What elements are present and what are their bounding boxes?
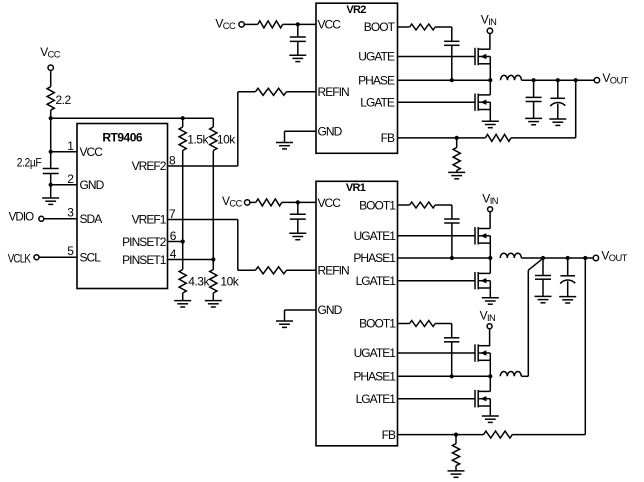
pin label BOOT1 (upper) <box>359 198 396 212</box>
resistor 2.2 <box>47 87 54 111</box>
wire phase2 diagonal to out junction <box>528 258 543 270</box>
net label VCLK <box>8 252 31 266</box>
ground (VR1 out cap2) <box>559 297 576 303</box>
wire UGATE to Q1 gate <box>398 56 476 58</box>
wire Q1 source to phase <box>489 57 491 81</box>
wire boot1 cap drop (lower) <box>451 324 453 338</box>
pin label UGATE <box>358 50 395 64</box>
terminal VIN (VR1 upper) <box>488 207 493 212</box>
wire FB riser (VR2) <box>575 80 577 138</box>
wire pin4 node to R 10k (lower) <box>212 260 214 270</box>
wire phase1b to Q6 drain <box>489 376 491 391</box>
net label VOUT (VR1) <box>601 249 627 264</box>
pin label GND (VR1) <box>318 303 343 317</box>
svg-text:SDA: SDA <box>80 212 103 226</box>
resistor FB bottom (VR2) <box>453 148 460 171</box>
wire R boot1 to corner (lower) <box>435 323 452 325</box>
svg-text:RT9406: RT9406 <box>102 131 143 145</box>
inductor L1a (VR1 upper output) <box>500 253 521 258</box>
wire boot1 cap drop (upper) <box>451 205 453 219</box>
svg-text:1.5k: 1.5k <box>187 132 209 146</box>
pin label LGATE1 (lower) <box>356 392 397 406</box>
wire pin6 node to R 4.3k <box>182 242 184 270</box>
wire GND pin VR2 <box>285 130 317 132</box>
svg-text:GND: GND <box>80 178 105 192</box>
transistor Q4 (VR1 upper low-side NMOS) <box>475 272 490 289</box>
ground (VR1 FB divider) <box>448 471 465 477</box>
net label VCC (VR2 feed) <box>215 16 236 31</box>
pin label VCC (VR2) <box>318 18 342 32</box>
pin label VCC (RT9406) <box>80 145 104 159</box>
capacitor output 2 polarized (VR2) <box>550 98 565 106</box>
pin label BOOT1 (lower) <box>359 317 396 331</box>
terminal VCC (VR1 feed) <box>245 200 250 205</box>
wire LGATE1 to Q6 gate <box>398 398 476 400</box>
pin number 2 <box>67 172 74 186</box>
value label 4.3k <box>188 274 210 288</box>
svg-text:UGATE1: UGATE1 <box>354 229 397 243</box>
wire pin6 PINSET2 <box>168 241 183 243</box>
transistor Q3 (VR1 upper high-side NMOS) <box>475 227 490 244</box>
wire pin3 SDA <box>44 218 77 220</box>
wire VCC terminal to R 2.2 <box>50 70 52 86</box>
node boot-cap/phase junction (VR2) <box>450 78 454 82</box>
pin number 4 <box>170 247 177 261</box>
IC label VR1 <box>346 182 366 194</box>
wire VREF2 to R refin2 <box>238 91 256 93</box>
wire boot1 cap to phase1 (upper) <box>451 223 453 258</box>
wire VREF1 riser down <box>237 220 239 271</box>
pin label PHASE1 (lower) <box>353 370 396 384</box>
pin label PINSET1 <box>122 253 167 267</box>
terminal VCLK <box>34 255 39 260</box>
pin label UGATE1 (lower) <box>354 346 397 360</box>
pin number 3 <box>67 206 74 220</box>
svg-text:10k: 10k <box>217 132 236 146</box>
node boot1-cap/phase1 junction (upper) <box>450 256 454 260</box>
node phase/fets junction (VR2) <box>488 78 492 82</box>
value label 2.2 <box>56 93 72 107</box>
pin label VCC (VR1) <box>318 196 342 210</box>
resistor 4.3k <box>179 270 186 294</box>
capacitor VCC decoupling (VR1) <box>290 214 306 219</box>
wire boot cap drop <box>451 27 453 41</box>
pin label GND (RT9406) <box>80 178 105 192</box>
wire UGATE1 to Q5 gate <box>398 352 476 354</box>
IC VR1 box <box>316 181 398 446</box>
wire VREF2 riser up <box>237 92 239 166</box>
value label 2.2uF <box>17 155 42 169</box>
ground (Q4 source) <box>482 298 499 304</box>
svg-text:2.2µF: 2.2µF <box>17 155 42 169</box>
ground (VR2 GND pin) <box>276 143 293 149</box>
pin label VREF2 <box>132 159 167 173</box>
resistor FB bottom (VR1) <box>452 444 459 466</box>
wire cap to ground (VR2 vcc) <box>297 41 299 55</box>
wire pin7 VREF1 <box>168 219 238 221</box>
pin label UGATE1 (upper) <box>354 229 397 243</box>
wire FB riser (VR1) <box>584 258 586 435</box>
ground (below lower 10k) <box>205 301 222 307</box>
net label VOUT (VR2) <box>602 71 628 86</box>
wire LGATE to Q2 gate <box>398 101 476 103</box>
wire pin5 SCL <box>39 256 77 258</box>
svg-text:UGATE1: UGATE1 <box>354 346 397 360</box>
transistor Q5 (VR1 lower high-side NMOS) <box>475 344 490 361</box>
node boot1-cap/phase1 junction (lower) <box>450 374 454 378</box>
svg-text:PINSET2: PINSET2 <box>122 235 167 249</box>
wire PHASE1 (lower) <box>398 375 491 377</box>
terminal VOUT (VR1) <box>593 255 598 260</box>
terminal VIN (VR2) <box>487 28 492 33</box>
capacitor output 1 (VR2) <box>526 97 542 101</box>
svg-text:GND: GND <box>318 124 343 138</box>
IC label VR2 <box>346 4 366 16</box>
resistor REFIN VR2 series <box>255 88 286 95</box>
wire pin2 GND <box>51 184 77 186</box>
svg-text:REFIN: REFIN <box>318 85 350 99</box>
capacitor 2.2uF <box>43 169 59 174</box>
svg-text:LGATE1: LGATE1 <box>356 392 397 406</box>
ground (Q2 source) <box>482 121 499 127</box>
net label VDIO <box>9 210 34 224</box>
resistor VCC feed VR1 <box>256 199 282 206</box>
pin label VREF1 <box>132 213 167 227</box>
svg-text:VREF1: VREF1 <box>132 213 167 227</box>
pin number 6 <box>170 229 177 243</box>
wire rail to R 1.5k <box>182 118 184 127</box>
pin label REFIN (VR2) <box>318 85 350 99</box>
transistor Q2 (VR2 low-side NMOS) <box>475 94 490 111</box>
node out cap2 tee (VR1) <box>566 256 570 260</box>
svg-text:FB: FB <box>382 428 396 442</box>
wire boot1 cap to phase1 (lower) <box>451 342 453 377</box>
wire LGATE1 to Q4 gate <box>398 280 476 282</box>
svg-text:VCC: VCC <box>318 18 342 32</box>
wire GND drop (VR2) <box>284 131 286 142</box>
wire Q4 source to ground <box>489 281 491 298</box>
svg-text:VDIO: VDIO <box>9 210 34 224</box>
inductor L1b (VR1 lower output) <box>500 372 521 377</box>
svg-text:VCC: VCC <box>80 145 104 159</box>
svg-text:LGATE: LGATE <box>360 95 395 109</box>
value label 1.5k <box>187 132 209 146</box>
ground (VR1 vcc cap) <box>289 233 306 239</box>
svg-text:PHASE1: PHASE1 <box>353 370 396 384</box>
svg-text:LGATE1: LGATE1 <box>356 274 397 288</box>
ground (VR2 FB divider) <box>448 172 465 178</box>
svg-text:VCLK: VCLK <box>8 252 31 266</box>
wire pin-1 node down to cap C 2.2uF <box>50 152 52 169</box>
wire out cap1 drop (VR2) <box>533 80 535 97</box>
wire VREF1 to R refin1 <box>238 269 256 271</box>
resistor VCC feed VR2 <box>258 21 283 28</box>
transistor Q1 (VR2 high-side NMOS) <box>475 48 490 65</box>
resistor FB top (VR2) <box>485 134 511 141</box>
pin label FB (VR2) <box>381 131 395 145</box>
capacitor bootstrap VR1 upper <box>444 219 459 223</box>
wire lower R10k to ground <box>212 293 214 301</box>
node phase1/fets junction (upper) <box>488 256 492 260</box>
wire FB top resistor right lead (VR2) <box>511 137 576 139</box>
wire VIN to Q3 drain <box>489 212 491 229</box>
terminal VIN (VR1 lower) <box>487 324 492 329</box>
wire pin8 VREF2 <box>168 165 238 167</box>
net label VIN (VR1 lower) <box>480 308 496 323</box>
wire node to decoupling cap (VR2) <box>297 24 299 37</box>
wire VIN to Q5 drain <box>489 329 491 346</box>
wire out cap2 to ground (VR2) <box>557 104 559 119</box>
net label VIN (VR1 upper) <box>482 191 498 206</box>
wire FB divider drop (VR1) <box>455 435 457 444</box>
wire Q2 source to ground <box>489 102 491 121</box>
wire inductor to VOUT (VR2) <box>522 79 595 81</box>
node pin-4 junction <box>211 257 215 261</box>
wire VIN to Q1 drain <box>489 34 491 50</box>
wire node to decoupling cap (VR1) <box>297 202 299 214</box>
wire cap to ground / pin-2 tee <box>50 174 52 199</box>
node phase1/fets junction (lower) <box>488 374 492 378</box>
IC VR2 box <box>316 3 398 153</box>
wire R4.3k to ground <box>182 293 184 301</box>
resistor 1.5k <box>179 127 186 151</box>
svg-text:4.3k: 4.3k <box>188 274 210 288</box>
node rail / 1.5k junction <box>181 116 185 120</box>
wire R boot to corner <box>435 26 452 28</box>
svg-text:PINSET1: PINSET1 <box>122 253 167 267</box>
resistor BOOT1 upper <box>410 202 436 208</box>
svg-text:GND: GND <box>318 303 343 317</box>
IC U1 RT9406 box <box>77 124 168 289</box>
pin label LGATE <box>360 95 395 109</box>
pin number 8 <box>169 153 176 167</box>
ground (below 4.3k) <box>174 301 191 307</box>
value label 10k (lower) <box>220 274 239 288</box>
wire R to REFIN VR1 <box>286 269 316 271</box>
capacitor bootstrap VR1 lower <box>444 338 459 342</box>
wire inductor L1a to out junction <box>521 257 543 259</box>
wire boot cap to phase node <box>451 45 453 80</box>
net label VCC (VR1 feed) <box>222 194 243 209</box>
wire inductor L1b to riser <box>521 375 528 377</box>
ground (VR2 vcc cap) <box>289 55 306 61</box>
wire Q3 source to phase1 <box>489 236 491 258</box>
ground (Q6 source) <box>482 416 499 422</box>
capacitor bootstrap VR2 <box>444 41 459 45</box>
terminal VCC (VR2 feed) <box>239 22 244 27</box>
pin number 5 <box>67 244 74 258</box>
wire out cap2 to ground (VR1) <box>567 281 569 296</box>
svg-text:10k: 10k <box>220 274 239 288</box>
svg-text:2: 2 <box>67 172 74 186</box>
svg-text:SCL: SCL <box>80 250 102 264</box>
wire R boot1 to corner (upper) <box>435 204 452 206</box>
svg-text:2.2: 2.2 <box>56 93 72 107</box>
wire FB top resistor right lead (VR1) <box>512 434 585 436</box>
wire GND pin VR1 <box>285 309 317 311</box>
pin label REFIN (VR1) <box>318 264 350 278</box>
wire BOOT1 pin to R (upper) <box>398 204 410 206</box>
pin label SDA (RT9406) <box>80 212 103 226</box>
svg-text:REFIN: REFIN <box>318 264 350 278</box>
pin number 7 <box>169 207 176 221</box>
wire cap to ground (VR1 vcc) <box>297 219 299 233</box>
ground (VR1 out cap1) <box>535 296 552 302</box>
wire VR1 output line <box>543 257 593 259</box>
inductor L2 (VR2 output) <box>501 75 522 80</box>
wire VCC term to R (VR2 feed) <box>244 23 257 25</box>
wire pin1 VCC <box>51 151 77 153</box>
wire rail corner to R 10k (first) <box>212 118 214 127</box>
wire phase to Q2 drain <box>489 80 491 95</box>
wire Q5 source to phase1b <box>489 353 491 376</box>
node pin-2 tee <box>49 183 53 187</box>
wire out cap2 drop (VR1) <box>567 258 569 276</box>
svg-text:FB: FB <box>381 131 395 145</box>
svg-text:VREF2: VREF2 <box>132 159 167 173</box>
wire PHASE1 (upper) <box>398 257 491 259</box>
value label 10k (upper) <box>217 132 236 146</box>
wire BOOT pin to R boot <box>398 26 410 28</box>
wire pin4 PINSET1 <box>168 259 214 261</box>
svg-text:BOOT: BOOT <box>364 20 396 34</box>
resistor 10k (upper divider) <box>210 127 217 151</box>
wire GND drop (VR1) <box>284 310 286 321</box>
wire BOOT1 pin to R (lower) <box>398 323 410 325</box>
svg-text:VCC: VCC <box>318 196 342 210</box>
wire out cap1 to ground (VR2) <box>533 102 535 119</box>
wire R to VCC pin VR1 <box>282 201 316 203</box>
resistor BOOT1 lower <box>410 321 436 327</box>
wire out cap1 drop (VR1) <box>542 258 544 276</box>
transistor Q6 (VR1 lower low-side NMOS) <box>475 390 490 407</box>
wire PHASE VR2 <box>398 79 491 81</box>
wire VCC term to R (VR1 feed) <box>250 201 256 203</box>
wire R to REFIN VR2 <box>286 91 316 93</box>
node FB divider tee (VR1) <box>454 433 458 437</box>
wire FB pin to resistor (VR1) <box>398 434 484 436</box>
pin label PHASE1 (upper) <box>353 251 396 265</box>
pin number 1 <box>67 139 74 153</box>
wire FB divider drop (VR2) <box>456 138 458 148</box>
wire R to VCC pin VR2 <box>283 23 316 25</box>
pin label GND (VR2) <box>318 124 343 138</box>
svg-text:VR1: VR1 <box>346 182 366 194</box>
wire phase1 to Q4 drain <box>489 258 491 273</box>
capacitor output 2 polarized (VR1) <box>560 276 575 284</box>
net label VIN (VR2) <box>481 13 497 28</box>
svg-text:VR2: VR2 <box>346 4 366 16</box>
pin label FB (VR1) <box>382 428 396 442</box>
node pin-6 junction <box>181 239 185 243</box>
resistor BOOT VR2 <box>410 24 436 30</box>
capacitor output 1 (VR1) <box>535 276 551 280</box>
wire out cap1 to ground (VR1) <box>542 279 544 296</box>
svg-text:PHASE1: PHASE1 <box>353 251 396 265</box>
resistor FB top (VR1) <box>484 431 513 438</box>
node out cap2 tee (VR2) <box>556 78 560 82</box>
ground (VR2 out cap1) <box>525 118 542 124</box>
wire R2.2 to VCC node rail and down to pin 1 <box>50 110 52 152</box>
wire out cap2 drop (VR2) <box>557 80 559 98</box>
net label VCC (input supply, top-left) <box>40 45 61 60</box>
ground (VR1 GND pin) <box>276 321 293 327</box>
pin label PINSET2 <box>122 235 167 249</box>
svg-text:BOOT1: BOOT1 <box>359 317 396 331</box>
node out cap1 tee (VR2) <box>532 78 536 82</box>
svg-text:1: 1 <box>67 139 74 153</box>
wire phase2 riser up <box>527 270 529 376</box>
wire FB pin to resistor (VR2) <box>398 137 486 139</box>
resistor 10k (lower divider) <box>210 270 217 294</box>
node pin-1 tee <box>49 150 53 154</box>
IC label RT9406 <box>102 131 143 145</box>
node FB divider tee (VR2) <box>455 136 459 140</box>
terminal VCC (top-left) <box>48 65 53 70</box>
node FB riser tee (VR2) <box>574 78 578 82</box>
ground (VR2 out cap2) <box>549 119 566 125</box>
terminal VOUT (VR2) <box>594 78 599 83</box>
pin label PHASE <box>358 73 395 87</box>
pin label SCL (RT9406) <box>80 250 102 264</box>
node FB riser tee (VR1) <box>583 256 587 260</box>
node VCC rail junction <box>49 116 53 120</box>
terminal VDIO <box>39 216 44 221</box>
wire FB bottom R to ground (VR2) <box>456 171 458 173</box>
pin label LGATE1 (upper) <box>356 274 397 288</box>
node VCC decoupling tee (VR2) <box>296 22 300 26</box>
wire UGATE1 to Q3 gate <box>398 235 476 237</box>
svg-text:5: 5 <box>67 244 74 258</box>
ground (below 2.2uF cap) <box>42 198 59 204</box>
node VCC decoupling tee (VR1) <box>296 200 300 204</box>
svg-text:PHASE: PHASE <box>358 73 395 87</box>
resistor REFIN VR1 series <box>255 267 286 274</box>
pin label BOOT <box>364 20 396 34</box>
wire R1.5k to pin 6 <box>182 151 184 242</box>
capacitor VCC decoupling (VR2) <box>290 37 306 41</box>
wire Q6 source to ground <box>489 399 491 416</box>
svg-text:BOOT1: BOOT1 <box>359 198 396 212</box>
wire FB bottom R to ground (VR1) <box>455 466 457 471</box>
wire R10k to pin 4 <box>212 151 214 260</box>
svg-text:UGATE: UGATE <box>358 50 395 64</box>
wire VCC rail (horizontal) <box>51 117 214 119</box>
node out junction (VR1) <box>541 256 545 260</box>
svg-text:3: 3 <box>67 206 74 220</box>
